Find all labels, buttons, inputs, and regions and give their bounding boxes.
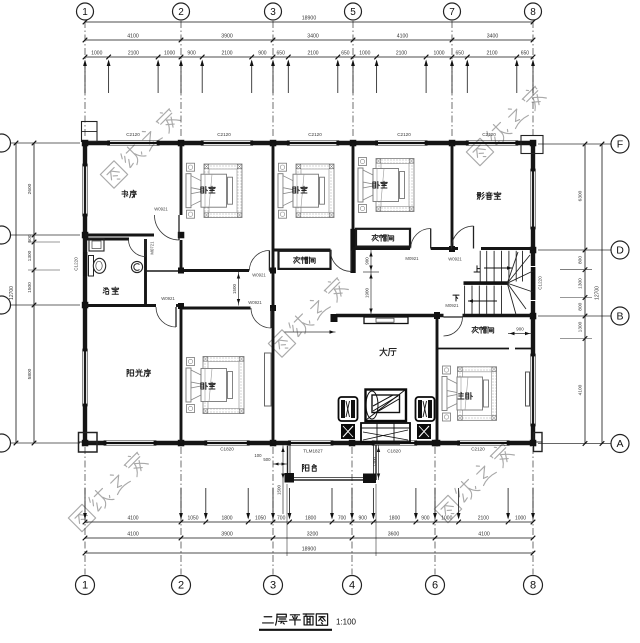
svg-text:3: 3 bbox=[270, 580, 276, 592]
svg-text:C2120: C2120 bbox=[482, 132, 496, 137]
svg-text:1800: 1800 bbox=[389, 516, 400, 522]
svg-text:A: A bbox=[616, 438, 623, 450]
svg-text:C2120: C2120 bbox=[397, 132, 411, 137]
svg-text:1000: 1000 bbox=[433, 51, 444, 57]
svg-text:7: 7 bbox=[449, 7, 455, 18]
svg-text:M0921: M0921 bbox=[405, 256, 419, 261]
svg-text:1000: 1000 bbox=[164, 51, 175, 57]
svg-text:900: 900 bbox=[187, 51, 196, 57]
svg-text:900: 900 bbox=[364, 257, 369, 265]
svg-text:C1820: C1820 bbox=[387, 449, 401, 454]
svg-text:2100: 2100 bbox=[486, 51, 497, 57]
svg-text:M0721: M0721 bbox=[150, 241, 155, 255]
svg-text:1500: 1500 bbox=[27, 282, 33, 293]
svg-text:W0921: W0921 bbox=[161, 296, 175, 301]
svg-text:C2120: C2120 bbox=[308, 132, 322, 137]
svg-text:3400: 3400 bbox=[307, 34, 319, 40]
svg-text:1800: 1800 bbox=[221, 516, 232, 522]
svg-text:2600: 2600 bbox=[27, 183, 33, 194]
svg-text:4100: 4100 bbox=[478, 532, 490, 538]
svg-text:4100: 4100 bbox=[127, 34, 139, 40]
svg-text:12700: 12700 bbox=[595, 286, 601, 300]
svg-text:1: 1 bbox=[82, 580, 88, 592]
svg-text:1:100: 1:100 bbox=[336, 618, 357, 627]
svg-text:650: 650 bbox=[521, 51, 530, 57]
svg-text:D: D bbox=[616, 245, 624, 257]
svg-text:W0921: W0921 bbox=[252, 273, 266, 278]
svg-text:650: 650 bbox=[341, 51, 350, 57]
svg-text:C1220: C1220 bbox=[74, 257, 79, 271]
svg-text:900: 900 bbox=[421, 516, 430, 522]
svg-text:1300: 1300 bbox=[578, 321, 584, 332]
svg-text:1000: 1000 bbox=[359, 51, 370, 57]
svg-text:C2120: C2120 bbox=[471, 447, 485, 452]
svg-text:W0921: W0921 bbox=[154, 207, 168, 212]
svg-text:900: 900 bbox=[516, 327, 524, 332]
svg-text:3200: 3200 bbox=[307, 532, 319, 538]
svg-text:C2120: C2120 bbox=[126, 132, 140, 137]
svg-text:4: 4 bbox=[349, 580, 355, 592]
svg-text:M0921: M0921 bbox=[445, 303, 459, 308]
svg-text:800: 800 bbox=[578, 256, 584, 264]
svg-text:1900: 1900 bbox=[364, 287, 369, 298]
svg-text:700: 700 bbox=[338, 516, 347, 522]
svg-text:TLM1827: TLM1827 bbox=[303, 449, 323, 454]
svg-text:1300: 1300 bbox=[578, 278, 584, 289]
svg-text:2100: 2100 bbox=[221, 51, 232, 57]
svg-text:3900: 3900 bbox=[221, 532, 233, 538]
svg-text:650: 650 bbox=[277, 51, 286, 57]
svg-text:3400: 3400 bbox=[487, 34, 499, 40]
svg-text:1300: 1300 bbox=[372, 456, 377, 467]
svg-text:6300: 6300 bbox=[578, 190, 584, 201]
svg-text:C2120: C2120 bbox=[217, 132, 231, 137]
svg-text:18900: 18900 bbox=[302, 16, 317, 22]
svg-text:500: 500 bbox=[263, 457, 271, 462]
svg-text:W0921: W0921 bbox=[448, 257, 462, 262]
svg-text:700: 700 bbox=[277, 516, 286, 522]
svg-text:4100: 4100 bbox=[127, 532, 139, 538]
svg-text:3: 3 bbox=[270, 7, 276, 18]
svg-text:C1220: C1220 bbox=[538, 276, 543, 290]
svg-text:4100: 4100 bbox=[578, 384, 584, 395]
svg-text:100: 100 bbox=[254, 453, 262, 458]
svg-text:1000: 1000 bbox=[515, 516, 526, 522]
svg-text:4100: 4100 bbox=[127, 516, 138, 522]
svg-text:1500: 1500 bbox=[277, 484, 282, 495]
svg-text:5800: 5800 bbox=[27, 368, 33, 379]
svg-text:4100: 4100 bbox=[397, 34, 409, 40]
svg-text:2: 2 bbox=[178, 580, 184, 592]
svg-text:1050: 1050 bbox=[255, 516, 266, 522]
svg-text:600: 600 bbox=[27, 234, 33, 242]
svg-text:1000: 1000 bbox=[91, 51, 102, 57]
svg-text:2: 2 bbox=[178, 7, 184, 18]
svg-text:2100: 2100 bbox=[396, 51, 407, 57]
svg-text:1300: 1300 bbox=[27, 250, 33, 261]
svg-text:1: 1 bbox=[82, 7, 88, 18]
svg-text:1500: 1500 bbox=[232, 283, 237, 294]
svg-text:5: 5 bbox=[350, 7, 356, 18]
svg-text:2100: 2100 bbox=[128, 51, 139, 57]
svg-text:800: 800 bbox=[578, 302, 584, 310]
svg-text:F: F bbox=[617, 139, 623, 151]
svg-text:2100: 2100 bbox=[478, 516, 489, 522]
svg-text:650: 650 bbox=[456, 51, 465, 57]
svg-text:W0921: W0921 bbox=[248, 300, 262, 305]
svg-text:1000: 1000 bbox=[441, 516, 452, 522]
svg-text:1800: 1800 bbox=[305, 516, 316, 522]
svg-text:900: 900 bbox=[258, 51, 267, 57]
svg-text:18900: 18900 bbox=[302, 547, 317, 553]
svg-text:8: 8 bbox=[530, 580, 536, 592]
svg-text:1050: 1050 bbox=[187, 516, 198, 522]
svg-text:12700: 12700 bbox=[9, 286, 15, 300]
svg-text:8: 8 bbox=[530, 7, 536, 18]
svg-text:2100: 2100 bbox=[307, 51, 318, 57]
svg-text:3600: 3600 bbox=[388, 532, 400, 538]
svg-text:B: B bbox=[616, 311, 623, 323]
svg-text:3900: 3900 bbox=[221, 34, 233, 40]
svg-text:6: 6 bbox=[432, 580, 438, 592]
svg-text:900: 900 bbox=[359, 516, 368, 522]
svg-text:C1820: C1820 bbox=[220, 447, 234, 452]
